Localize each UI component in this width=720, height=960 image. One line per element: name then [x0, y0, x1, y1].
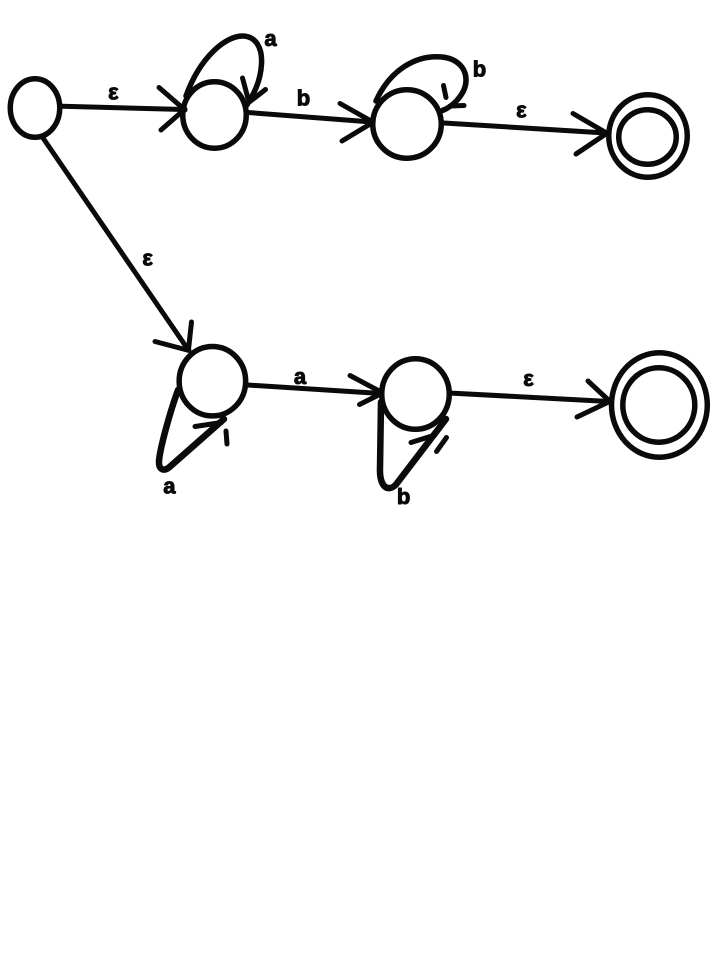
self-loop b on q4 (below) [380, 402, 447, 488]
self-loop a on q3 (below) [159, 390, 227, 470]
svg-text:ε: ε [142, 245, 153, 270]
wire: a transition q3 to q4 [248, 385, 382, 394]
state q0 (start state circle) [10, 79, 60, 138]
svg-text:a: a [163, 474, 176, 499]
wire: epsilon transition q2 to f1 [444, 123, 606, 133]
arrowhead into q3 [155, 322, 192, 351]
wire: epsilon transition q4 to f2 [449, 393, 609, 402]
self-loop b on q2 [376, 57, 466, 111]
svg-text:b: b [473, 57, 486, 82]
svg-text:b: b [297, 86, 310, 111]
arrowhead into q4 [350, 376, 382, 405]
arrowhead into q1 [159, 88, 185, 131]
wire: epsilon transition q0 to q1 [62, 106, 184, 109]
svg-text:ε: ε [516, 98, 527, 123]
self-loop a on q1 [186, 36, 266, 106]
arrowhead into q2 [340, 104, 372, 142]
state q2 [373, 90, 442, 159]
state q3 [179, 347, 246, 416]
state q4 [382, 359, 450, 430]
svg-text:b: b [397, 484, 410, 509]
arrowhead into f1 [573, 114, 607, 155]
state q1 [183, 82, 247, 149]
wire: epsilon transition q0 to q3 (diagonal) [43, 138, 187, 348]
svg-text:a: a [264, 26, 277, 51]
svg-text:ε: ε [108, 80, 119, 105]
svg-text:ε: ε [523, 366, 534, 391]
arrowhead into f2 [577, 381, 610, 417]
final state f1 (double circle) [609, 95, 688, 178]
wire: b transition q1 to q2 [248, 113, 372, 123]
final state f2 (double circle) [612, 353, 708, 458]
svg-text:a: a [294, 364, 307, 389]
